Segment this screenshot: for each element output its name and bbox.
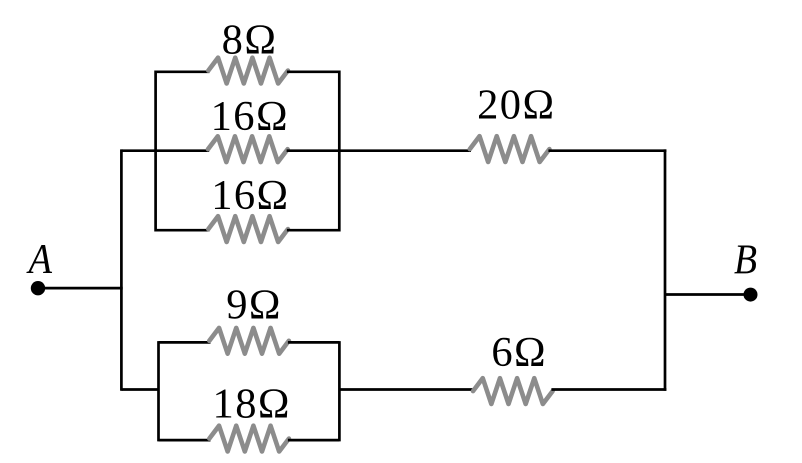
resistor 9ohm: [209, 328, 289, 354]
wire left bus vertical: [120, 149, 123, 390]
wire 9ohm branch left: [159, 341, 211, 344]
wire 18ohm branch right: [288, 439, 340, 442]
svg-text:6Ω: 6Ω: [491, 329, 547, 376]
wire 16ohm to 20ohm: [287, 149, 471, 152]
label 9ohm: [226, 281, 282, 328]
wire right rail to B: [665, 293, 751, 296]
svg-text:9Ω: 9Ω: [226, 281, 282, 328]
label B: [734, 237, 757, 284]
wire 16ohm lower branch left: [156, 229, 210, 232]
label 6ohm: [491, 329, 547, 376]
wire bottom box left edge: [157, 341, 160, 441]
wire 20ohm to right rail: [548, 149, 666, 152]
wire 18ohm branch left: [159, 439, 211, 442]
svg-text:B: B: [734, 237, 757, 284]
wire bottom box right edge: [338, 341, 341, 441]
label 20ohm: [477, 81, 555, 128]
wire 8ohm branch right: [287, 70, 339, 73]
svg-text:16Ω: 16Ω: [211, 172, 289, 219]
wire bus to bottom box: [121, 388, 158, 391]
resistor 20ohm: [470, 136, 550, 162]
wire right rail vertical: [664, 149, 667, 390]
wire middle branch bus to 16ohm: [121, 149, 209, 152]
label 16ohm lower: [211, 172, 289, 219]
label 8ohm: [222, 16, 278, 63]
wire A to bus: [38, 287, 123, 290]
svg-text:16Ω: 16Ω: [211, 93, 289, 140]
wire 9ohm branch right: [288, 341, 340, 344]
wire 16ohm lower branch right: [287, 229, 339, 232]
label 18ohm: [213, 380, 291, 427]
node B: [744, 288, 758, 302]
node A: [31, 281, 45, 295]
svg-text:A: A: [26, 236, 53, 283]
wire top box right edge: [338, 71, 341, 232]
resistor 8ohm: [208, 58, 288, 84]
label A: [26, 236, 53, 283]
svg-text:20Ω: 20Ω: [477, 81, 555, 128]
resistor 18ohm: [209, 426, 289, 452]
resistor 16ohm lower: [208, 216, 288, 242]
wire top box left edge: [154, 71, 157, 232]
resistor 16ohm middle: [208, 136, 288, 162]
wire 6ohm to right rail: [551, 388, 666, 391]
label 16ohm middle: [211, 93, 289, 140]
svg-text:8Ω: 8Ω: [222, 16, 278, 63]
svg-text:18Ω: 18Ω: [213, 380, 291, 427]
wire 8ohm branch left: [156, 70, 210, 73]
resistor 6ohm: [473, 378, 553, 404]
wire bottom box to 6ohm: [339, 388, 474, 391]
